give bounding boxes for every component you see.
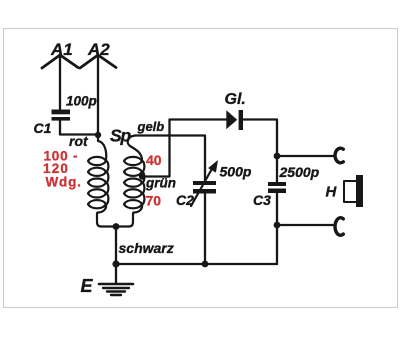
node grün tap — [139, 173, 145, 179]
svg-text:Wdg.: Wdg. — [46, 175, 82, 190]
wire gelb to C2 — [135, 136, 205, 182]
terminal headphone lower — [335, 218, 343, 236]
antenna A2 — [80, 40, 116, 68]
svg-text:70: 70 — [146, 193, 162, 209]
svg-text:C3: C3 — [253, 192, 271, 208]
wire right rail upper — [277, 155, 334, 157]
node ground junction — [112, 260, 119, 267]
antenna A1 — [42, 40, 78, 68]
svg-text:500p: 500p — [220, 164, 252, 180]
wire C2 to bottom rail — [204, 194, 206, 265]
svg-text:C1: C1 — [34, 120, 52, 136]
svg-text:E: E — [81, 276, 94, 296]
wire right rail lower — [277, 224, 333, 226]
svg-text:gelb: gelb — [137, 119, 165, 134]
svg-text:C2: C2 — [176, 192, 194, 208]
wire A1 lead — [59, 55, 61, 109]
coil Sp primary winding — [88, 135, 116, 227]
wire A2 lead — [97, 55, 99, 135]
svg-text:grün: grün — [145, 176, 176, 191]
wire diode to right rail — [244, 120, 278, 157]
ground E — [81, 264, 134, 296]
wire C1 to node — [60, 120, 98, 135]
node antenna/coil junction — [95, 132, 101, 138]
node C3 top — [274, 153, 281, 160]
svg-text:H: H — [326, 184, 338, 201]
terminal headphone upper — [335, 148, 343, 163]
svg-text:rot: rot — [69, 133, 89, 149]
diode Gl. — [225, 91, 246, 130]
svg-text:40: 40 — [146, 152, 162, 168]
svg-text:A1: A1 — [50, 40, 73, 59]
node C3 bottom — [274, 222, 281, 229]
wire grün tap to diode — [142, 120, 226, 177]
node C2 bottom — [202, 261, 209, 268]
svg-text:Gl.: Gl. — [225, 91, 246, 108]
headphone H — [326, 175, 364, 207]
svg-text:2500p: 2500p — [279, 164, 320, 180]
wire C3 to bottom rail — [276, 193, 278, 264]
node coil bottom — [113, 223, 120, 230]
capacitor C2 variable 500p — [176, 160, 252, 208]
capacitor C3 2500p — [253, 156, 320, 208]
coil Sp secondary winding — [116, 136, 144, 227]
label 100-120 Wdg. (red) — [43, 149, 82, 190]
svg-text:100p: 100p — [66, 94, 97, 109]
wire bottom rail — [116, 263, 277, 265]
wire schwarz down — [115, 227, 117, 265]
svg-text:schwarz: schwarz — [119, 240, 174, 256]
capacitor C1 100p — [34, 94, 97, 137]
